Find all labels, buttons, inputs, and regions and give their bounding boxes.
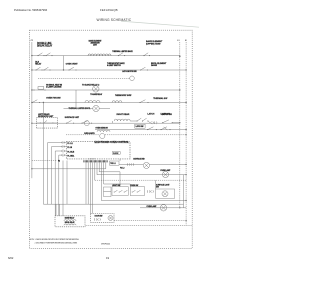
- svg-text:OVEN SENSOR: OVEN SENSOR: [95, 128, 108, 130]
- svg-text:1 2 3 4 5 6 7 8: 1 2 3 4 5 6 7 8: [88, 159, 95, 161]
- svg-text:LATCH: LATCH: [147, 113, 154, 116]
- svg-text:6/02: 6/02: [8, 256, 14, 260]
- svg-text:RELAY: RELAY: [35, 62, 42, 65]
- svg-text:OVEN LIGHTS: OVEN LIGHTS: [84, 133, 96, 135]
- svg-text:3400W: 3400W: [151, 64, 157, 67]
- svg-text:BROIL RELAY: BROIL RELAY: [65, 221, 76, 224]
- svg-text:P1-4 MDL: P1-4 MDL: [67, 155, 74, 158]
- svg-text:THERMAL SW: THERMAL SW: [153, 97, 168, 100]
- svg-text:2 LAMPS LICENSE: 2 LAMPS LICENSE: [46, 86, 62, 89]
- svg-text:THERMOSTAT SURF: THERMOSTAT SURF: [115, 94, 132, 97]
- svg-text:TO BAKE RELAY: TO BAKE RELAY: [90, 93, 103, 96]
- svg-text:P1-2 N: P1-2 N: [67, 147, 73, 149]
- svg-text:5995F5044: 5995F5044: [101, 244, 110, 246]
- svg-text:DOOR SW: DOOR SW: [95, 216, 103, 218]
- svg-text:OVEN VENT: OVEN VENT: [66, 64, 79, 66]
- svg-text:(UPPER) 750W: (UPPER) 750W: [146, 43, 161, 45]
- svg-text:SURFACE IND: SURFACE IND: [133, 158, 145, 161]
- svg-text:SW: SW: [156, 186, 159, 188]
- svg-text:THERMAL LIMITER BROIL: THERMAL LIMITER BROIL: [69, 107, 92, 110]
- svg-text:FEFL69HQB: FEFL69HQB: [100, 8, 118, 12]
- svg-text:P2: P2: [58, 160, 60, 162]
- svg-text:ELECTRONIC OVEN CONTROL: ELECTRONIC OVEN CONTROL: [95, 141, 130, 144]
- svg-text:LATCH SW: LATCH SW: [136, 125, 144, 128]
- svg-text:BREAK RELAY: BREAK RELAY: [37, 45, 53, 48]
- svg-text:C1: C1: [31, 40, 33, 42]
- svg-text:OVEN LAMP: OVEN LAMP: [146, 205, 157, 208]
- svg-text:P3 1-2: P3 1-2: [120, 167, 124, 169]
- svg-text:1. CHECK GROUND CIRCUITS FOR: 1. CHECK GROUND CIRCUITS FOR CONTINUITY …: [35, 238, 80, 241]
- svg-text:RIGHT REAR: RIGHT REAR: [117, 113, 130, 116]
- svg-text:Publication No. 5995437966: Publication No. 5995437966: [14, 8, 48, 12]
- svg-text:N: N: [185, 40, 187, 42]
- svg-text:OVEN FAN SW: OVEN FAN SW: [46, 96, 61, 99]
- svg-text:P1-3 DLB: P1-3 DLB: [67, 152, 75, 154]
- svg-text:LATCH SW: LATCH SW: [162, 113, 172, 116]
- svg-text:19: 19: [106, 256, 110, 260]
- svg-text:BAKE RELAY: BAKE RELAY: [65, 217, 75, 220]
- svg-text:THERMAL LIMITER BAKE: THERMAL LIMITER BAKE: [112, 50, 133, 53]
- svg-text:CLOCK: CLOCK: [113, 153, 119, 155]
- svg-text:& LIMIT SWITCH: & LIMIT SWITCH: [107, 65, 121, 67]
- svg-text:SURFACE UNIT: SURFACE UNIT: [65, 116, 80, 119]
- svg-text:P1-1 L1: P1-1 L1: [67, 143, 72, 145]
- svg-text:LATCH MOTOR SW: LATCH MOTOR SW: [122, 70, 137, 73]
- svg-text:L1: L1: [177, 40, 179, 42]
- svg-text:TOD 1-2: TOD 1-2: [110, 163, 116, 165]
- svg-text:2. DISCONNECT POWER BEFORE SE: 2. DISCONNECT POWER BEFORE SERVICING UNI…: [35, 241, 78, 244]
